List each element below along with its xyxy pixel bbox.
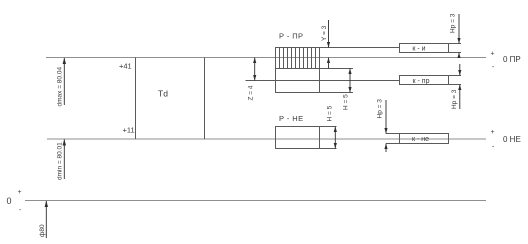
svg-text:к - пр: к - пр	[413, 78, 430, 85]
svg-text:Р - ПР: Р - ПР	[279, 32, 303, 41]
svg-text:0 НЕ: 0 НЕ	[503, 135, 521, 144]
svg-text:Р - НЕ: Р - НЕ	[279, 114, 304, 123]
svg-text:dmax = 80.04: dmax = 80.04	[57, 67, 64, 107]
svg-text:Z = 4: Z = 4	[248, 85, 255, 100]
svg-text:Н = 5: Н = 5	[327, 105, 334, 121]
svg-text:Нр = 3: Нр = 3	[450, 13, 457, 33]
svg-text:0 ПР: 0 ПР	[503, 55, 521, 64]
svg-text:0: 0	[7, 196, 12, 206]
svg-text:+: +	[18, 189, 22, 196]
svg-text:+: +	[491, 51, 495, 58]
svg-text:+41: +41	[119, 62, 132, 71]
svg-text:к - и: к - и	[412, 46, 425, 53]
svg-text:+: +	[491, 129, 495, 136]
svg-text:Td: Td	[158, 89, 168, 99]
svg-text:к - не: к - не	[412, 136, 429, 143]
svg-text:+11: +11	[123, 126, 135, 135]
svg-text:Нр = 3: Нр = 3	[377, 99, 384, 119]
svg-text:ф80: ф80	[39, 224, 46, 237]
svg-text:Нр = 3: Нр = 3	[451, 89, 458, 109]
svg-text:Н = 5: Н = 5	[343, 94, 350, 110]
svg-text:Y = 3: Y = 3	[321, 25, 328, 41]
svg-text:dmin = 80.01: dmin = 80.01	[57, 142, 64, 180]
